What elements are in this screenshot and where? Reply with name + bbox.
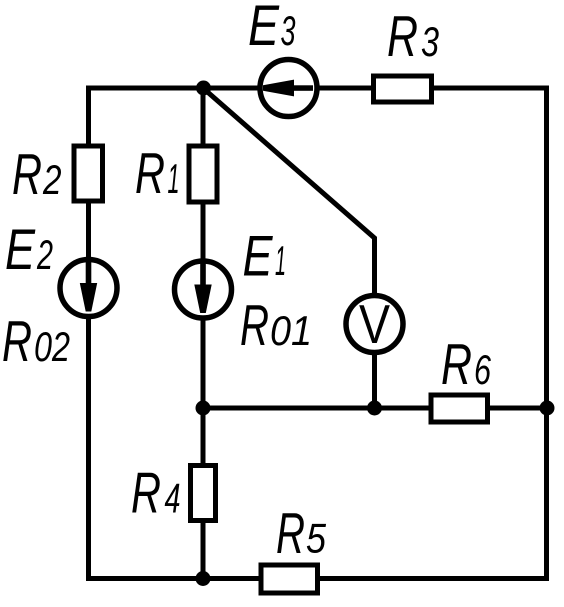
- svg-text:R: R: [131, 462, 161, 526]
- svg-text:V: V: [359, 293, 390, 355]
- svg-text:2: 2: [42, 156, 61, 203]
- svg-text:01: 01: [270, 307, 312, 354]
- svg-text:E: E: [248, 0, 280, 58]
- svg-text:R: R: [441, 333, 472, 397]
- svg-text:1: 1: [275, 237, 286, 284]
- svg-text:R: R: [2, 310, 32, 374]
- svg-text:E: E: [5, 218, 36, 282]
- svg-text:R: R: [240, 294, 269, 358]
- svg-text:4: 4: [165, 475, 181, 522]
- svg-text:R: R: [12, 143, 42, 207]
- svg-text:6: 6: [474, 346, 492, 393]
- svg-text:1: 1: [168, 155, 180, 202]
- svg-text:R: R: [276, 502, 305, 566]
- svg-text:3: 3: [421, 18, 439, 65]
- svg-text:5: 5: [306, 515, 327, 562]
- svg-text:2: 2: [36, 231, 53, 278]
- svg-text:R: R: [135, 142, 165, 206]
- svg-text:3: 3: [281, 7, 296, 54]
- svg-text:E: E: [243, 225, 274, 289]
- svg-text:R: R: [387, 5, 418, 69]
- svg-text:02: 02: [34, 323, 70, 370]
